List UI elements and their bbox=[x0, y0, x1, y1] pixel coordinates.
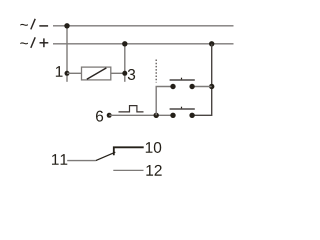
push button S2 right contact dot bbox=[189, 113, 194, 118]
relay coil diagonal stroke bbox=[87, 68, 107, 79]
wire: terminal 12 lead bbox=[113, 169, 143, 171]
wire: left vertical up to top contact row bbox=[156, 87, 173, 116]
wire: top contact right lead bbox=[192, 86, 212, 88]
pin label 3 bbox=[128, 69, 135, 80]
push button S2 bar bbox=[170, 108, 195, 110]
junction dot at bottom wire / left vertical bbox=[154, 113, 159, 118]
wire: terminal 6 to push buttons bbox=[109, 114, 173, 116]
junction dot on ~/+ line at right branch bbox=[209, 41, 214, 46]
wire: terminal 11 lead bbox=[67, 160, 96, 162]
wire: vertical drop from ~/- to terminal 1 bbox=[66, 26, 68, 82]
push button S2 actuator tick bbox=[181, 107, 183, 109]
wire: terminal 1 to coil bbox=[67, 72, 82, 74]
junction dot on ~/- line bbox=[64, 23, 69, 28]
junction dot right vertical at top contact row bbox=[209, 84, 214, 89]
terminal 1 dot bbox=[65, 71, 70, 76]
junction dot on ~/+ line at terminal 3 branch bbox=[122, 41, 127, 46]
changeover switch arm bbox=[96, 152, 116, 160]
push button S2 left contact dot bbox=[170, 113, 175, 118]
push button S1 right contact dot bbox=[189, 84, 194, 89]
contact 10 fixed contact L-shape bbox=[114, 147, 144, 155]
pin label 11 bbox=[52, 154, 59, 165]
dashed mechanical link bbox=[155, 60, 157, 83]
wire: right vertical from ~/+ down and left to push-button outputs bbox=[192, 44, 212, 116]
wire: coil to terminal 3 bbox=[111, 72, 125, 74]
push button S1 bar bbox=[170, 79, 195, 81]
pulse symbol (impulse) bbox=[119, 106, 144, 112]
net label ~/+ bbox=[20, 37, 48, 48]
wire: supply line ~/- bbox=[53, 25, 234, 27]
pin label 10 bbox=[146, 142, 153, 153]
wire: vertical from ~/+ to terminal 3 bbox=[124, 44, 126, 82]
relay coil box K1 bbox=[82, 67, 111, 80]
push button S1 actuator tick bbox=[181, 78, 183, 80]
wire: supply line ~/+ bbox=[53, 43, 234, 45]
terminal 3 dot bbox=[122, 71, 127, 76]
pin label 1 bbox=[56, 66, 63, 77]
push button S1 left contact dot bbox=[170, 84, 175, 89]
pin label 12 bbox=[146, 165, 153, 176]
net label ~/- bbox=[20, 19, 48, 30]
terminal 6 dot bbox=[107, 113, 112, 118]
pin label 6 bbox=[96, 111, 103, 122]
